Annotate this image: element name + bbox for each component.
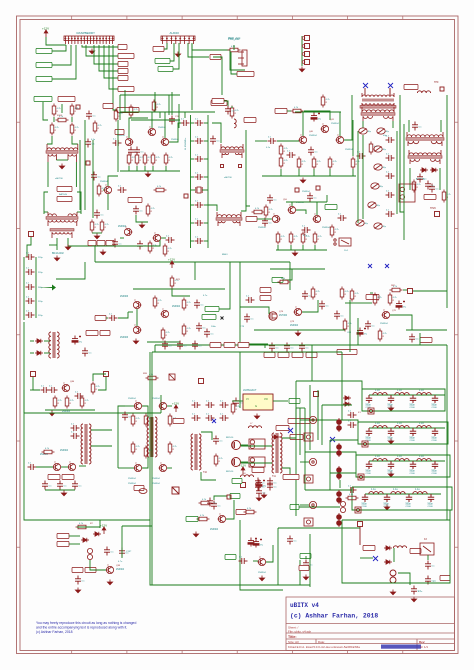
svg-text:LM78L0ACT: LM78L0ACT [243, 389, 257, 392]
wire T13 out1 [91, 429, 112, 431]
wire Q50 to Q52 link [296, 210, 306, 214]
svg-text:4.7k: 4.7k [105, 224, 110, 226]
wire filter lower cap 0 left [191, 204, 195, 206]
wire Q50 up [291, 202, 293, 206]
svg-text:Q: Q [289, 205, 291, 207]
resistor R40A [279, 144, 288, 157]
jumper JP1 pin circle [302, 37, 305, 40]
capacitor C81 [319, 301, 329, 310]
svg-text:Q: Q [135, 463, 137, 465]
wire TR routing z-path [24, 520, 310, 585]
capacitor C30 filter upper [195, 118, 204, 126]
inductor LB3 [417, 426, 431, 428]
test point TP17 [104, 372, 109, 377]
wire PTT to R5 [287, 110, 291, 112]
svg-text:0.1: 0.1 [274, 483, 278, 485]
wire into Q85 [125, 467, 134, 469]
wire P1 pin to LV [82, 45, 118, 47]
svg-text:You may freely reproduce this: You may freely reproduce this circuit as… [36, 621, 136, 625]
capacitor C61 [386, 153, 395, 161]
wire Q2 collector up [108, 176, 118, 186]
wire P1 pin to CW-TONE [86, 45, 118, 56]
svg-text:(c) Ashhar Farhan, 2018: (c) Ashhar Farhan, 2018 [290, 613, 378, 620]
resistor R21A [129, 105, 138, 118]
junction X mark audio [221, 317, 224, 320]
capacitor C44 [357, 151, 366, 159]
transformer T7 primary [362, 93, 394, 107]
wire vertical x322 relay col [321, 405, 323, 445]
wire D9 in [30, 352, 34, 354]
svg-text:2N3904: 2N3904 [100, 181, 108, 183]
wire T9 out right [439, 168, 441, 190]
no-connect flag T11b [288, 428, 293, 433]
wire Q2 bias loop [92, 240, 160, 246]
resistor R101b [168, 442, 177, 455]
capacitor C1A3 [94, 210, 104, 219]
svg-text:0.1: 0.1 [276, 348, 280, 350]
hierarchical label COAX2 [211, 100, 227, 105]
capacitor C120 [233, 398, 243, 407]
wire P1 pin to CLK0 label [52, 45, 76, 79]
svg-text:+12V: +12V [100, 523, 107, 527]
svg-text:R102: R102 [57, 115, 63, 117]
svg-text:uB0T90: uB0T90 [224, 177, 232, 179]
hierarchical label M1 [246, 216, 257, 221]
svg-text:0.1: 0.1 [203, 328, 207, 330]
resistor network RV2 bias [249, 457, 265, 467]
svg-text:Q95: Q95 [116, 565, 121, 567]
wire P1 pin to CLK2 label [52, 45, 66, 51]
svg-text:2N3904: 2N3904 [380, 323, 388, 325]
capacitor CA3 [410, 395, 416, 403]
resistor R53 [289, 232, 298, 245]
svg-text:220p: 220p [38, 272, 43, 274]
wire filter cap 2 left [191, 158, 195, 160]
capacitor C5 [225, 106, 235, 115]
svg-text:R: R [136, 421, 138, 423]
capacitor C14 [134, 147, 144, 156]
svg-text:L7: L7 [250, 423, 253, 425]
svg-text:0.1: 0.1 [111, 552, 115, 554]
svg-text:R: R [156, 160, 158, 162]
wire vertical x240 mid lower [239, 307, 241, 344]
resistor R112b [199, 499, 212, 505]
svg-text:and the entire accompanying te: and the entire accompanying text is repr… [36, 626, 127, 630]
capacitor C153 [267, 482, 277, 491]
svg-text:0.1: 0.1 [251, 319, 255, 321]
hierarchical label IF1 [128, 197, 142, 202]
svg-text:Q: Q [300, 135, 302, 137]
capacitor CA4 [432, 395, 438, 403]
resistor R22 [135, 153, 144, 166]
resistor R90 [91, 382, 100, 395]
ground near Q96 [193, 532, 198, 537]
wire resistor 166 to gnd rail [165, 166, 167, 171]
capacitor CC4 [432, 461, 438, 469]
wire riser x161 [160, 395, 162, 413]
wire y405 relay col [322, 404, 352, 406]
wire vertical x312 upper [311, 345, 313, 381]
wire PA caps gnd rail [45, 489, 75, 491]
transistor Q21 2N3904 [125, 137, 133, 146]
test point TP14 [408, 289, 413, 294]
svg-text:R: R [57, 111, 59, 113]
wire K3 to C145 [427, 555, 429, 560]
svg-text:0.1: 0.1 [220, 441, 224, 443]
svg-text:47u: 47u [403, 307, 407, 309]
crystal X1 11.0592MHz [196, 187, 202, 193]
test point TP16 [31, 372, 36, 377]
svg-text:4.7k: 4.7k [136, 446, 141, 448]
svg-text:4.7k: 4.7k [96, 386, 101, 388]
svg-text:220p: 220p [38, 257, 43, 259]
wire TR to loop E [122, 525, 152, 527]
capacitor C96 [177, 341, 187, 350]
resistor R41 [297, 157, 306, 170]
wire ladder right rail [35, 257, 37, 318]
svg-text:0.1: 0.1 [269, 223, 273, 225]
hierarchical label BFO [260, 287, 271, 292]
svg-text:4.7k: 4.7k [393, 297, 398, 299]
diode D7 BAT54S [366, 294, 379, 299]
resistor R47 [369, 142, 378, 155]
wire right amp bottom [358, 318, 420, 345]
transformer T11 [272, 433, 282, 473]
wire big loop 1 [152, 352, 300, 585]
resistor R43 [328, 157, 337, 170]
test point TP18 [199, 379, 204, 384]
ground C147 [411, 597, 416, 602]
wire drop x155 [154, 92, 156, 112]
transistor Q97 2N3904 [258, 557, 266, 566]
svg-text:0.1: 0.1 [306, 348, 310, 350]
wire into Q83 [125, 405, 134, 407]
svg-text:2N3904: 2N3904 [290, 325, 299, 327]
hierarchical label A2 [224, 342, 235, 347]
wire TX3 out [69, 543, 80, 545]
relay K5 coil box [304, 433, 313, 441]
svg-text:R: R [356, 164, 358, 166]
capacitor CD2 [384, 494, 390, 502]
hierarchical label PB [103, 103, 113, 108]
hierarchical label COAX1 [404, 84, 418, 89]
wire bus to Q85 [118, 467, 125, 469]
svg-text:TP9: TP9 [434, 81, 439, 84]
capacitor C144 [348, 485, 357, 493]
diode D20 [93, 532, 101, 536]
svg-text:2N3904: 2N3904 [60, 450, 69, 452]
svg-text:4.7k: 4.7k [269, 209, 274, 211]
wire P1 pin to LCD-LIGHT [113, 45, 117, 110]
wire D9 out [44, 352, 50, 354]
svg-text:0.1: 0.1 [291, 348, 295, 350]
resistor R101 [52, 104, 61, 117]
wire Q90 to T11 [241, 445, 272, 447]
no-connect flag blue [212, 419, 216, 423]
hierarchical label A1 [210, 342, 221, 347]
wire vertical x350 [349, 300, 351, 352]
wire TK8 to R111 [197, 518, 198, 520]
svg-text:IRF510: IRF510 [226, 471, 234, 473]
wire lower amp R278 gnd [277, 245, 279, 250]
polarized capacitor pair CP2 [337, 466, 342, 480]
svg-text:R: R [284, 163, 286, 165]
svg-text:0.1: 0.1 [129, 417, 133, 419]
capacitor C74 [196, 323, 206, 332]
global label CLK0-B [36, 76, 52, 81]
svg-text:4.7k: 4.7k [219, 458, 224, 460]
svg-text:R: R [284, 151, 286, 153]
svg-text:2N3904: 2N3904 [116, 569, 125, 571]
test point TP24 [358, 522, 363, 527]
svg-text:0.1: 0.1 [89, 353, 93, 355]
wire vertical x118 low [117, 418, 119, 468]
capacitor C84 10u [396, 301, 407, 310]
wire Q2 emitter down [107, 194, 109, 210]
svg-text:BAT54S: BAT54S [59, 193, 68, 196]
global label K5 [290, 504, 299, 509]
+12V PA supply [239, 463, 246, 474]
svg-text:VI: VI [246, 397, 249, 401]
svg-text:2N3904: 2N3904 [152, 478, 160, 480]
wire drop to TR switch [99, 520, 101, 528]
svg-text:AUDIO: AUDIO [170, 31, 180, 35]
wire filter lower cap 1 left [191, 222, 195, 224]
wire LPF C rail [369, 460, 445, 462]
resistor R54 [301, 232, 310, 245]
svg-text:4.7k: 4.7k [136, 418, 141, 420]
trimmer capacitor TC4 [374, 164, 387, 170]
test point TP9 [440, 87, 444, 91]
svg-text:Q40: Q40 [309, 131, 314, 133]
svg-text:4.7k: 4.7k [156, 157, 161, 159]
jumper JP1 [305, 36, 310, 41]
wire riser x327 [326, 195, 328, 202]
resistor R107 [97, 184, 106, 197]
wire Q97 collector up [266, 545, 273, 562]
wire AUDIO pin long drop [191, 44, 193, 110]
test point TP10 [29, 232, 34, 237]
svg-text:Q: Q [273, 214, 275, 216]
jumper JP2 [305, 44, 310, 49]
trimmer capacitor TC1 [359, 128, 372, 134]
diode D31 [343, 402, 351, 406]
resistor R30 [230, 106, 239, 119]
svg-text:4.7k: 4.7k [284, 160, 289, 162]
svg-text:Q: Q [154, 233, 156, 235]
global label TA1 [225, 554, 236, 559]
svg-text:4.7k: 4.7k [169, 157, 174, 159]
svg-text:220p: 220p [38, 301, 43, 303]
svg-text:TP26: TP26 [430, 207, 436, 210]
wire HIGH up [219, 262, 230, 309]
svg-text:Q: Q [105, 185, 107, 187]
polarized capacitor pair CP0 [337, 418, 342, 432]
relay K5 armature circle [309, 416, 316, 423]
resistor R26 [148, 241, 157, 254]
svg-text:File: ubitx_v4.sch: File: ubitx_v4.sch [288, 630, 312, 634]
test point TP6 [316, 186, 320, 190]
svg-text:Q: Q [219, 514, 221, 516]
wire into T2 right [77, 211, 81, 213]
svg-text:R: R [168, 251, 170, 253]
svg-text:0.1: 0.1 [294, 541, 298, 543]
svg-text:0.1: 0.1 [424, 179, 428, 181]
ground K5 [390, 590, 395, 595]
capacitor CD1 [362, 494, 368, 502]
wire K2 to Q95 [90, 560, 106, 570]
capacitor label C131 [72, 567, 83, 572]
capacitor C25 [166, 235, 175, 243]
capacitor C156 47u [256, 480, 267, 489]
wire NC1 stub [364, 88, 366, 95]
svg-text:Rev:: Rev: [419, 640, 425, 644]
resistor R27 [163, 244, 172, 257]
ground lower amp [292, 251, 297, 256]
ground U1 [254, 414, 259, 419]
svg-text:10-1: 10-1 [344, 250, 349, 252]
wire TP24 down [359, 527, 361, 545]
resistor R113b [244, 508, 257, 514]
resistor R106 [214, 454, 223, 467]
wire vertical x318 [317, 390, 319, 440]
capacitor C113 [192, 400, 201, 408]
wire stub x169 [168, 95, 170, 115]
transformer T2 pins [48, 212, 77, 238]
wire P1 pin to CLK1 label [52, 45, 71, 65]
resistor network RV1 bias [249, 439, 265, 449]
svg-text:0.1: 0.1 [82, 581, 86, 583]
svg-text:Q: Q [126, 137, 128, 139]
resistor R72 [153, 296, 162, 309]
resistor R77 [278, 278, 291, 284]
capacitor C43 4.7u [311, 113, 322, 122]
global label TX2 [289, 398, 300, 403]
wire filter cap 2 right [204, 158, 208, 160]
wire IF2 to C40 [255, 140, 267, 142]
wire to LPF B loop [305, 420, 358, 424]
capacitor C35 filter lower [195, 218, 204, 226]
svg-text:R: R [98, 128, 100, 130]
wire vertical x246 [245, 130, 247, 200]
ground audio amp [133, 339, 138, 344]
transistor Q95 2N3904 [106, 565, 114, 574]
wire to LPF D loop [305, 489, 352, 491]
svg-text:220p: 220p [38, 315, 43, 317]
hierarchical label TX0 [118, 61, 128, 66]
wire lower amp R303 gnd [302, 245, 304, 250]
wire P1 pin to TX2 [104, 45, 118, 78]
svg-text:0.1: 0.1 [101, 215, 105, 217]
inductor L10 [417, 91, 430, 93]
resistor R82 100 [390, 286, 403, 292]
svg-text:R: R [158, 303, 160, 305]
wire VOL-M to P2 [173, 43, 179, 69]
transformer T2 winding A left [48, 214, 56, 216]
transistor Q20 2N3904 [148, 127, 156, 136]
diode D26 [384, 560, 392, 564]
relay LB-1 pins [334, 239, 336, 245]
wire Q91 to T11 [241, 462, 272, 464]
transistor Q75 2N3904 [382, 310, 390, 319]
svg-text:Q: Q [134, 325, 136, 327]
capacitor C145 [425, 561, 435, 570]
wire amp2 ground rail [262, 175, 356, 177]
resistor R81 [343, 319, 352, 332]
wire LPF A loop [362, 389, 445, 411]
svg-text:R: R [85, 403, 87, 405]
ground C23 [139, 223, 144, 228]
wire filter cap 1 right [204, 140, 208, 142]
diode D25 [384, 546, 392, 550]
svg-text:4.7k: 4.7k [383, 333, 388, 335]
svg-text:0.1: 0.1 [436, 189, 440, 191]
wire Q52 up [316, 202, 318, 215]
svg-text:Q: Q [160, 463, 162, 465]
wire vertical x397 trim caps [396, 131, 398, 214]
wire ladder link to T2 [49, 244, 57, 246]
svg-text:R: R [302, 164, 304, 166]
svg-text:0.1: 0.1 [79, 486, 83, 488]
wire U1 out [273, 400, 288, 402]
svg-text:4.7k: 4.7k [98, 125, 103, 127]
global label OSC1 [325, 204, 337, 209]
svg-text:(c) Ashhar Farhan, 2018: (c) Ashhar Farhan, 2018 [36, 630, 73, 634]
wire T2 out right [68, 238, 95, 262]
wire T6 out [241, 200, 246, 211]
relay pin KB [362, 441, 368, 447]
trimmer capacitor TC3 [374, 146, 387, 152]
wire y473 relay col [330, 472, 356, 474]
svg-text:Q50: Q50 [283, 199, 288, 201]
resistor R40B [279, 156, 288, 169]
global label HIGH [205, 306, 219, 311]
capacitor C51b [307, 193, 317, 202]
hierarchical label CW-KEY2 [58, 96, 75, 101]
ground Q95 [107, 580, 112, 585]
wire D8 in [30, 340, 34, 342]
resistor R99 [131, 442, 140, 455]
ground below jumper block [299, 67, 304, 72]
svg-text:4.?u: 4.?u [118, 561, 123, 563]
test point TP26 [435, 212, 440, 217]
hierarchical label AF [100, 330, 110, 335]
svg-text:C180: C180 [428, 506, 434, 508]
jumper JP4 [305, 60, 310, 65]
svg-text:0.1: 0.1 [315, 152, 319, 154]
svg-text:Q: Q [107, 565, 109, 567]
wire R82 to TP14 [403, 289, 407, 291]
svg-text:4.7k: 4.7k [151, 208, 156, 210]
svg-text:R: R [378, 300, 380, 302]
capacitor CB3 [410, 428, 416, 436]
wire vertical x240 mid [239, 262, 241, 307]
svg-text:4.7k: 4.7k [168, 248, 173, 250]
resistor R51b [264, 205, 273, 218]
hierarchical label M2 [115, 129, 124, 134]
relay K7 coil box [304, 518, 313, 526]
wire SPK to C85 [106, 317, 108, 319]
svg-text:Title:: Title: [288, 635, 297, 639]
capacitor C50b [267, 195, 277, 204]
hierarchical label TX3 [57, 541, 69, 546]
wire Q91 drain out [240, 461, 248, 463]
ground C133 [75, 588, 80, 593]
resistor label R2A [88, 240, 96, 245]
svg-text:2N3904: 2N3904 [128, 478, 136, 480]
relay K3 box [420, 543, 434, 555]
svg-text:0.1: 0.1 [372, 326, 376, 328]
